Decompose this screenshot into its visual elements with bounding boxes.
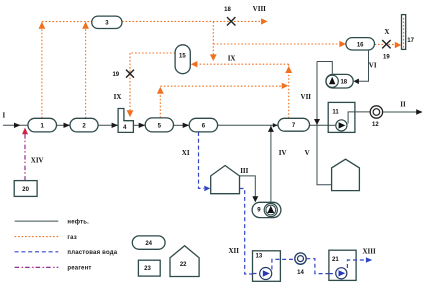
svg-text:11: 11 — [332, 110, 339, 116]
svg-text:III: III — [240, 167, 248, 175]
svg-text:V: V — [305, 149, 310, 157]
svg-text:21: 21 — [332, 257, 339, 263]
svg-text:IX: IX — [228, 55, 236, 63]
svg-text:16: 16 — [357, 42, 364, 48]
svg-text:XII: XII — [228, 247, 239, 255]
svg-text:17: 17 — [407, 38, 414, 44]
svg-text:22: 22 — [180, 262, 187, 268]
svg-text:18: 18 — [340, 79, 347, 85]
svg-text:XIII: XIII — [362, 248, 376, 256]
svg-text:24: 24 — [145, 241, 152, 247]
svg-text:XIV: XIV — [31, 157, 44, 165]
svg-text:12: 12 — [372, 122, 379, 128]
svg-text:18: 18 — [224, 7, 231, 13]
svg-text:19: 19 — [383, 54, 390, 60]
svg-text:пластовая вода: пластовая вода — [67, 250, 117, 256]
svg-text:13: 13 — [256, 254, 263, 260]
svg-text:X: X — [384, 28, 389, 36]
svg-text:газ: газ — [67, 235, 77, 241]
svg-text:VI: VI — [369, 61, 377, 69]
svg-text:VIII: VIII — [253, 5, 267, 13]
svg-text:VII: VII — [301, 93, 312, 101]
svg-text:реагент: реагент — [67, 266, 91, 272]
svg-text:IX: IX — [114, 93, 122, 101]
svg-text:II: II — [400, 101, 406, 109]
svg-text:IV: IV — [279, 149, 287, 157]
svg-text:15: 15 — [179, 53, 186, 59]
svg-text:XI: XI — [182, 149, 190, 157]
svg-text:I: I — [3, 112, 6, 120]
svg-text:19: 19 — [112, 72, 119, 78]
svg-text:20: 20 — [22, 187, 29, 193]
svg-text:нефть.: нефть. — [67, 218, 89, 225]
svg-text:23: 23 — [144, 266, 151, 272]
svg-text:14: 14 — [297, 270, 304, 276]
